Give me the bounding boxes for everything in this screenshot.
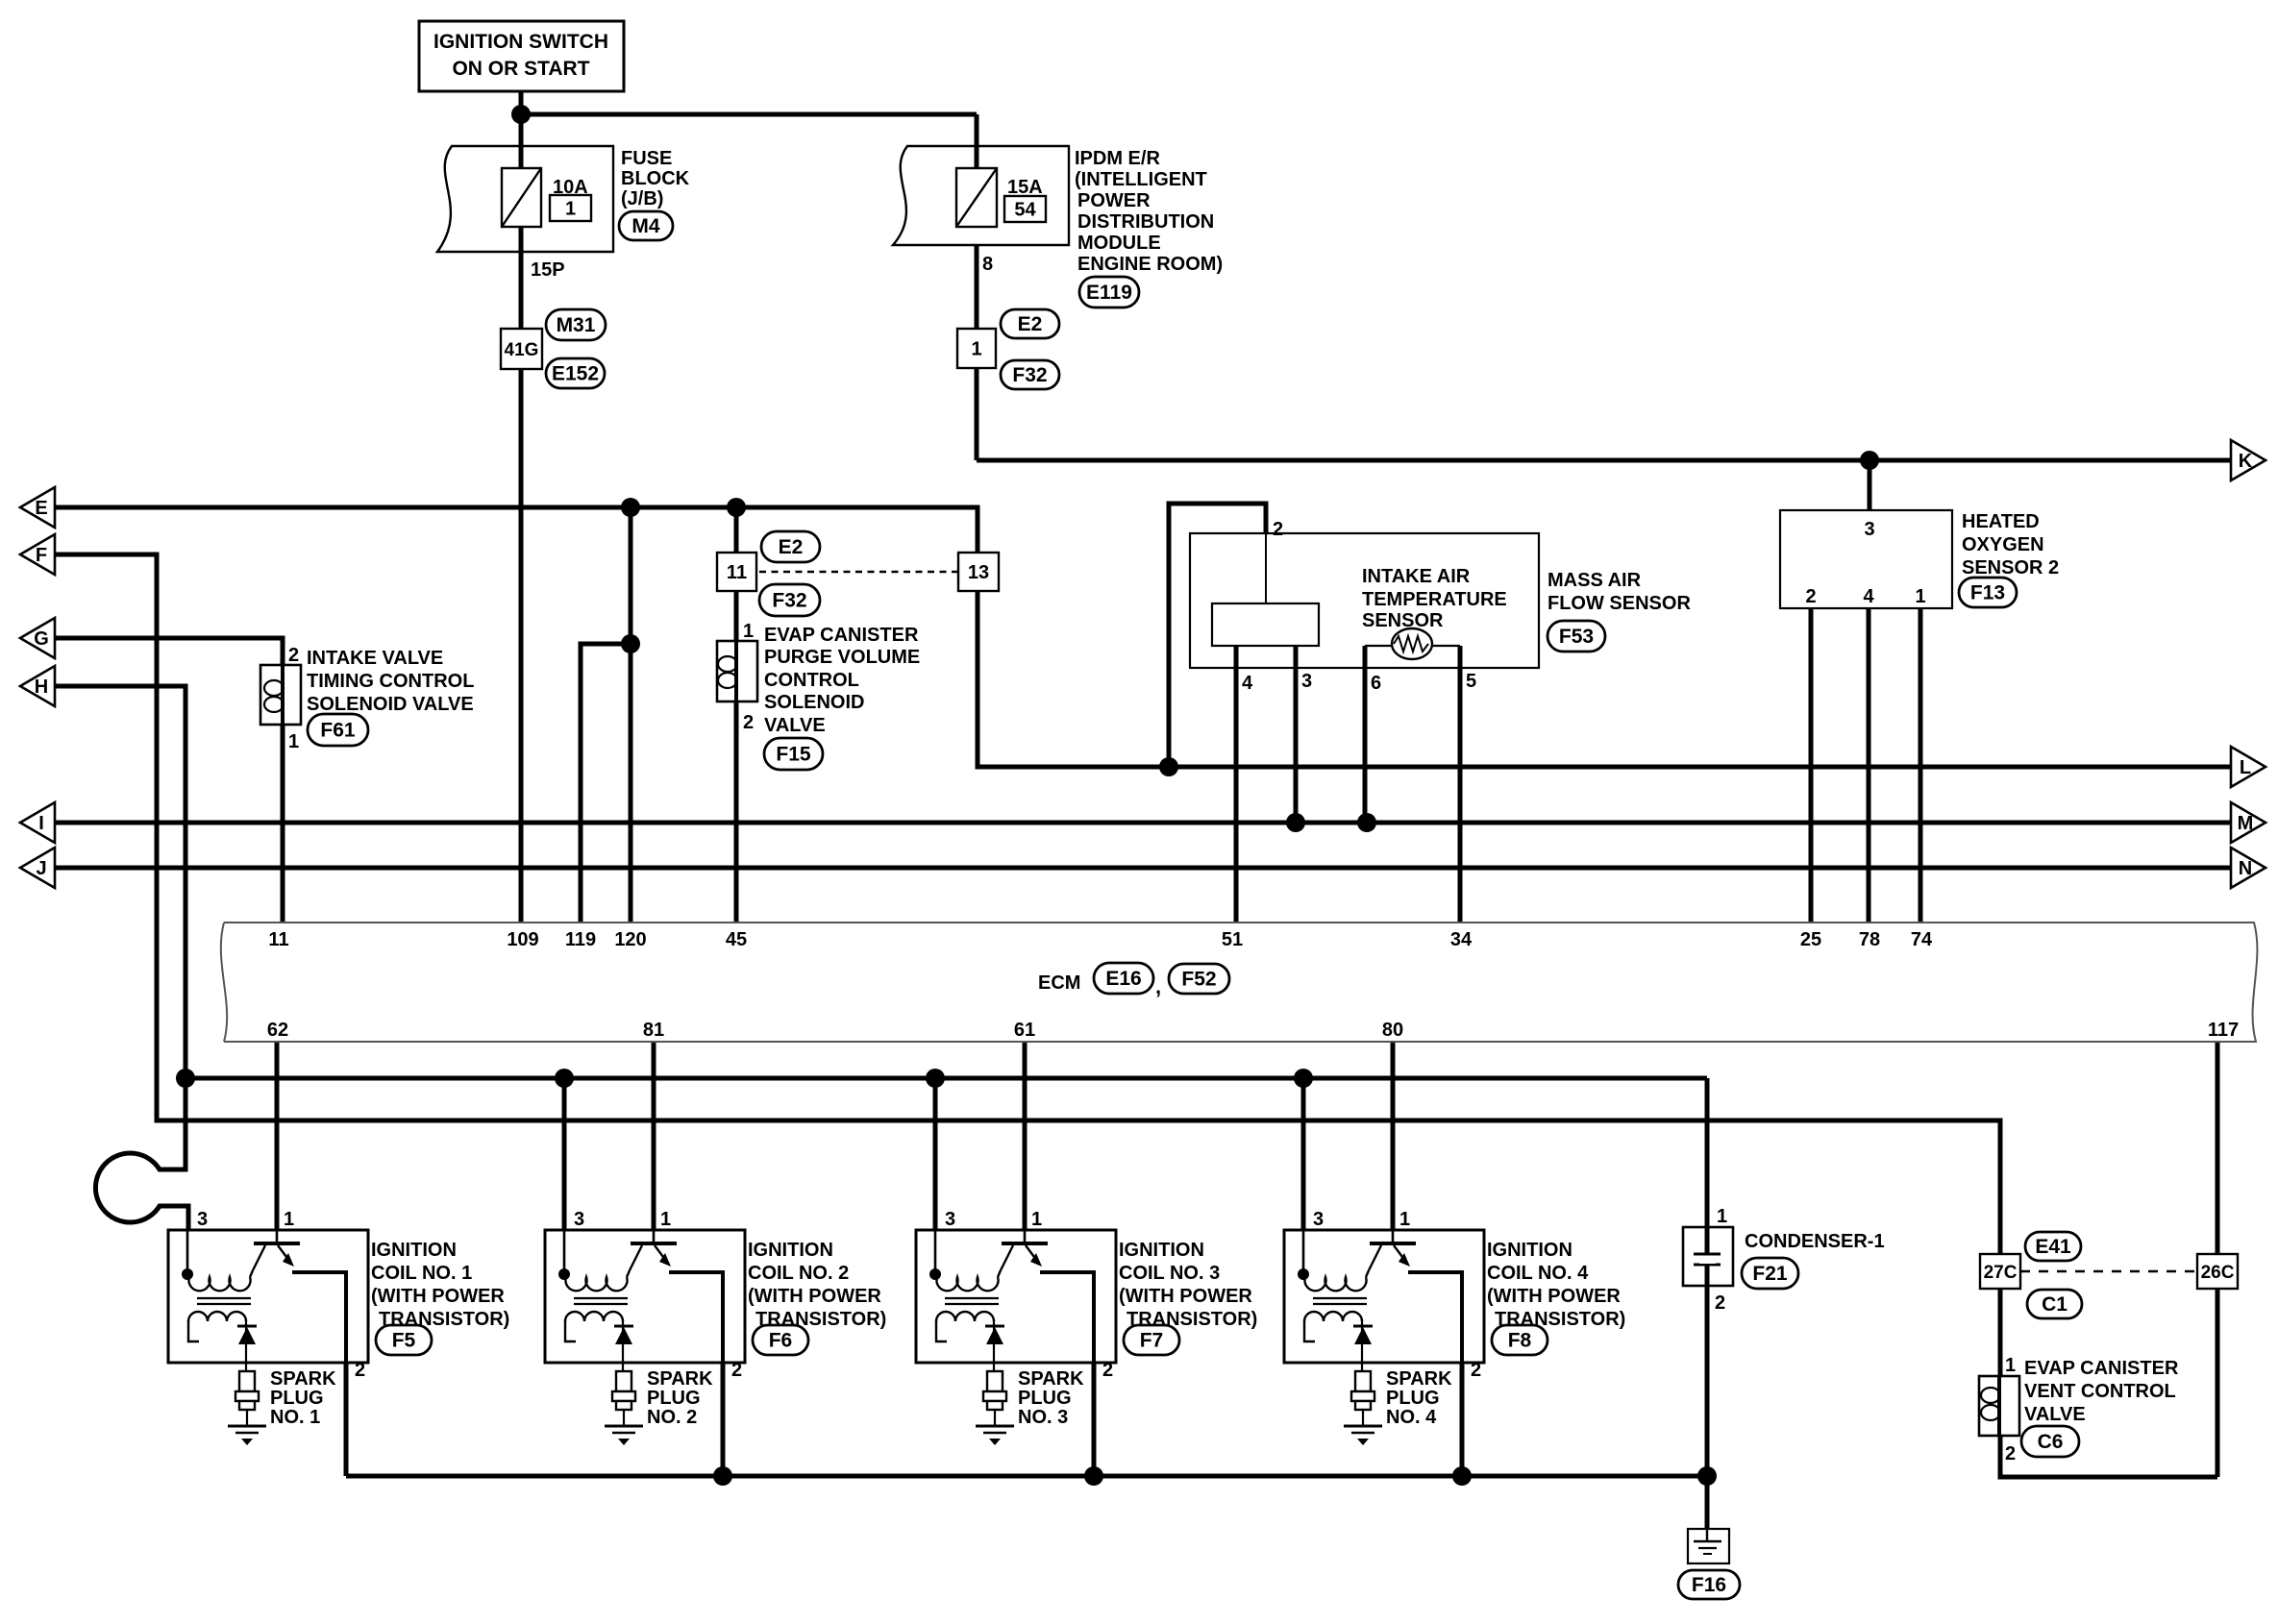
svg-text:2: 2 (288, 645, 299, 666)
svg-text:CONDENSER-1: CONDENSER-1 (1745, 1231, 1885, 1252)
svg-text:ENGINE ROOM): ENGINE ROOM) (1077, 254, 1223, 275)
svg-text:IPDM E/R: IPDM E/R (1075, 148, 1160, 169)
svg-text:G: G (34, 628, 49, 650)
svg-text:E119: E119 (1086, 282, 1132, 304)
svg-text:,: , (1155, 974, 1161, 998)
svg-text:2: 2 (743, 712, 754, 733)
svg-text:1: 1 (743, 621, 754, 642)
svg-text:41G: 41G (505, 340, 539, 360)
svg-text:(J/B): (J/B) (621, 188, 663, 209)
svg-text:(WITH POWER: (WITH POWER (1119, 1286, 1252, 1307)
svg-text:78: 78 (1859, 929, 1880, 950)
svg-text:E41: E41 (2035, 1236, 2071, 1258)
svg-text:SPARK: SPARK (270, 1368, 336, 1390)
svg-text:HEATED: HEATED (1962, 511, 2040, 532)
svg-text:H: H (35, 677, 48, 698)
svg-text:1: 1 (284, 1209, 294, 1230)
svg-text:OXYGEN: OXYGEN (1962, 534, 2044, 555)
svg-text:117: 117 (2208, 1020, 2239, 1041)
svg-text:F53: F53 (1559, 626, 1594, 648)
svg-text:1: 1 (1031, 1209, 1042, 1230)
svg-text:VALVE: VALVE (2024, 1404, 2086, 1425)
svg-text:5: 5 (1466, 671, 1476, 692)
svg-text:1: 1 (1717, 1206, 1727, 1227)
svg-text:C6: C6 (2038, 1431, 2064, 1453)
svg-text:E2: E2 (1018, 313, 1043, 335)
svg-text:PLUG: PLUG (647, 1388, 701, 1409)
svg-text:M4: M4 (631, 215, 659, 237)
svg-text:1: 1 (660, 1209, 671, 1230)
svg-text:54: 54 (1014, 200, 1036, 221)
svg-text:VENT CONTROL: VENT CONTROL (2024, 1381, 2176, 1402)
svg-text:1: 1 (288, 731, 299, 752)
svg-text:27C: 27C (1984, 1263, 2018, 1283)
svg-text:NO. 2: NO. 2 (647, 1407, 697, 1428)
svg-text:(WITH POWER: (WITH POWER (1487, 1286, 1621, 1307)
svg-text:15A: 15A (1007, 177, 1043, 198)
svg-text:VALVE: VALVE (764, 715, 826, 736)
svg-text:N: N (2239, 858, 2252, 879)
svg-text:2: 2 (1273, 519, 1283, 540)
svg-text:2: 2 (1805, 586, 1816, 607)
svg-text:119: 119 (565, 929, 596, 950)
svg-text:F: F (36, 545, 47, 566)
svg-text:4: 4 (1863, 586, 1874, 607)
svg-text:80: 80 (1382, 1020, 1403, 1041)
svg-text:POWER: POWER (1077, 190, 1151, 211)
svg-text:SPARK: SPARK (1018, 1368, 1084, 1390)
svg-text:3: 3 (1313, 1209, 1324, 1230)
svg-text:F13: F13 (1970, 582, 2005, 604)
svg-text:NO. 4: NO. 4 (1386, 1407, 1437, 1428)
svg-text:INTAKE AIR: INTAKE AIR (1362, 566, 1471, 587)
svg-text:SENSOR: SENSOR (1362, 610, 1444, 631)
svg-text:3: 3 (574, 1209, 584, 1230)
svg-text:ON OR START: ON OR START (452, 58, 589, 80)
svg-text:PURGE VOLUME: PURGE VOLUME (764, 647, 920, 668)
svg-text:SOLENOID VALVE: SOLENOID VALVE (307, 694, 474, 715)
svg-text:IGNITION: IGNITION (1487, 1240, 1572, 1261)
svg-text:11: 11 (727, 562, 747, 583)
svg-text:F21: F21 (1752, 1263, 1788, 1285)
svg-text:COIL NO. 3: COIL NO. 3 (1119, 1263, 1220, 1284)
svg-text:F15: F15 (776, 744, 811, 766)
svg-text:120: 120 (614, 929, 646, 950)
svg-text:11: 11 (268, 929, 288, 950)
svg-text:PLUG: PLUG (1018, 1388, 1072, 1409)
svg-text:109: 109 (507, 929, 538, 950)
svg-text:E2: E2 (779, 536, 804, 558)
svg-text:E: E (35, 498, 47, 519)
svg-text:1: 1 (2005, 1355, 2016, 1376)
svg-text:PLUG: PLUG (1386, 1388, 1440, 1409)
svg-text:1: 1 (1399, 1209, 1410, 1230)
svg-text:3: 3 (1301, 671, 1312, 692)
svg-text:EVAP CANISTER: EVAP CANISTER (2024, 1358, 2179, 1379)
svg-text:F32: F32 (772, 590, 806, 612)
svg-text:25: 25 (1800, 929, 1821, 950)
svg-text:13: 13 (968, 562, 989, 583)
svg-text:IGNITION: IGNITION (371, 1240, 457, 1261)
svg-text:34: 34 (1450, 929, 1473, 950)
svg-text:F5: F5 (392, 1330, 416, 1352)
svg-text:74: 74 (1911, 929, 1933, 950)
svg-text:F6: F6 (769, 1330, 793, 1352)
svg-text:1: 1 (971, 339, 981, 360)
svg-text:SOLENOID: SOLENOID (764, 692, 864, 713)
svg-text:2: 2 (355, 1360, 365, 1381)
svg-text:J: J (36, 858, 46, 879)
svg-text:62: 62 (267, 1020, 288, 1041)
svg-text:1: 1 (1915, 586, 1925, 607)
svg-text:2: 2 (1471, 1360, 1481, 1381)
svg-text:F16: F16 (1692, 1574, 1726, 1596)
svg-text:F52: F52 (1181, 969, 1216, 991)
svg-text:2: 2 (1715, 1292, 1725, 1314)
svg-text:COIL NO. 2: COIL NO. 2 (748, 1263, 849, 1284)
svg-text:3: 3 (945, 1209, 955, 1230)
svg-text:2: 2 (1102, 1360, 1113, 1381)
svg-text:PLUG: PLUG (270, 1388, 324, 1409)
svg-text:IGNITION: IGNITION (748, 1240, 833, 1261)
svg-text:26C: 26C (2201, 1263, 2235, 1283)
svg-text:F8: F8 (1508, 1330, 1532, 1352)
svg-text:F61: F61 (320, 720, 356, 742)
svg-text:SENSOR 2: SENSOR 2 (1962, 557, 2059, 578)
svg-text:51: 51 (1222, 929, 1243, 950)
svg-text:61: 61 (1014, 1020, 1035, 1041)
svg-text:45: 45 (726, 929, 747, 950)
svg-text:TEMPERATURE: TEMPERATURE (1362, 589, 1507, 610)
svg-text:15P: 15P (531, 259, 565, 281)
svg-text:CONTROL: CONTROL (764, 670, 859, 691)
svg-text:NO. 3: NO. 3 (1018, 1407, 1068, 1428)
svg-text:1: 1 (565, 199, 576, 220)
svg-text:COIL NO. 1: COIL NO. 1 (371, 1263, 472, 1284)
svg-text:DISTRIBUTION: DISTRIBUTION (1077, 211, 1214, 233)
svg-text:(INTELLIGENT: (INTELLIGENT (1075, 169, 1207, 190)
svg-text:8: 8 (982, 254, 993, 275)
svg-text:6: 6 (1371, 673, 1381, 694)
svg-text:4: 4 (1242, 673, 1253, 694)
svg-text:(WITH POWER: (WITH POWER (748, 1286, 881, 1307)
svg-text:FLOW SENSOR: FLOW SENSOR (1548, 593, 1691, 614)
svg-text:EVAP CANISTER: EVAP CANISTER (764, 625, 919, 646)
svg-text:3: 3 (1864, 519, 1874, 540)
svg-text:COIL NO. 4: COIL NO. 4 (1487, 1263, 1589, 1284)
svg-text:MASS AIR: MASS AIR (1548, 570, 1642, 591)
svg-text:M: M (2238, 813, 2254, 834)
svg-text:BLOCK: BLOCK (621, 168, 690, 189)
svg-text:2: 2 (2005, 1443, 2016, 1464)
svg-text:I: I (38, 813, 44, 834)
svg-text:M31: M31 (557, 314, 596, 336)
svg-text:IGNITION: IGNITION (1119, 1240, 1204, 1261)
svg-text:F7: F7 (1140, 1330, 1164, 1352)
svg-text:INTAKE VALVE: INTAKE VALVE (307, 648, 443, 669)
svg-text:IGNITION SWITCH: IGNITION SWITCH (433, 31, 608, 53)
svg-text:2: 2 (731, 1360, 742, 1381)
svg-text:SPARK: SPARK (647, 1368, 713, 1390)
svg-text:81: 81 (643, 1020, 664, 1041)
svg-text:L: L (2240, 757, 2251, 778)
svg-text:MODULE: MODULE (1077, 233, 1161, 254)
svg-text:3: 3 (197, 1209, 208, 1230)
svg-text:ECM: ECM (1038, 972, 1080, 994)
svg-text:K: K (2239, 451, 2253, 472)
svg-text:E16: E16 (1105, 968, 1141, 990)
svg-text:(WITH POWER: (WITH POWER (371, 1286, 505, 1307)
svg-text:C1: C1 (2042, 1293, 2068, 1316)
svg-text:E152: E152 (552, 363, 599, 385)
svg-text:FUSE: FUSE (621, 148, 672, 169)
svg-text:SPARK: SPARK (1386, 1368, 1452, 1390)
svg-text:TIMING CONTROL: TIMING CONTROL (307, 671, 474, 692)
svg-text:NO. 1: NO. 1 (270, 1407, 320, 1428)
svg-text:F32: F32 (1012, 364, 1047, 386)
